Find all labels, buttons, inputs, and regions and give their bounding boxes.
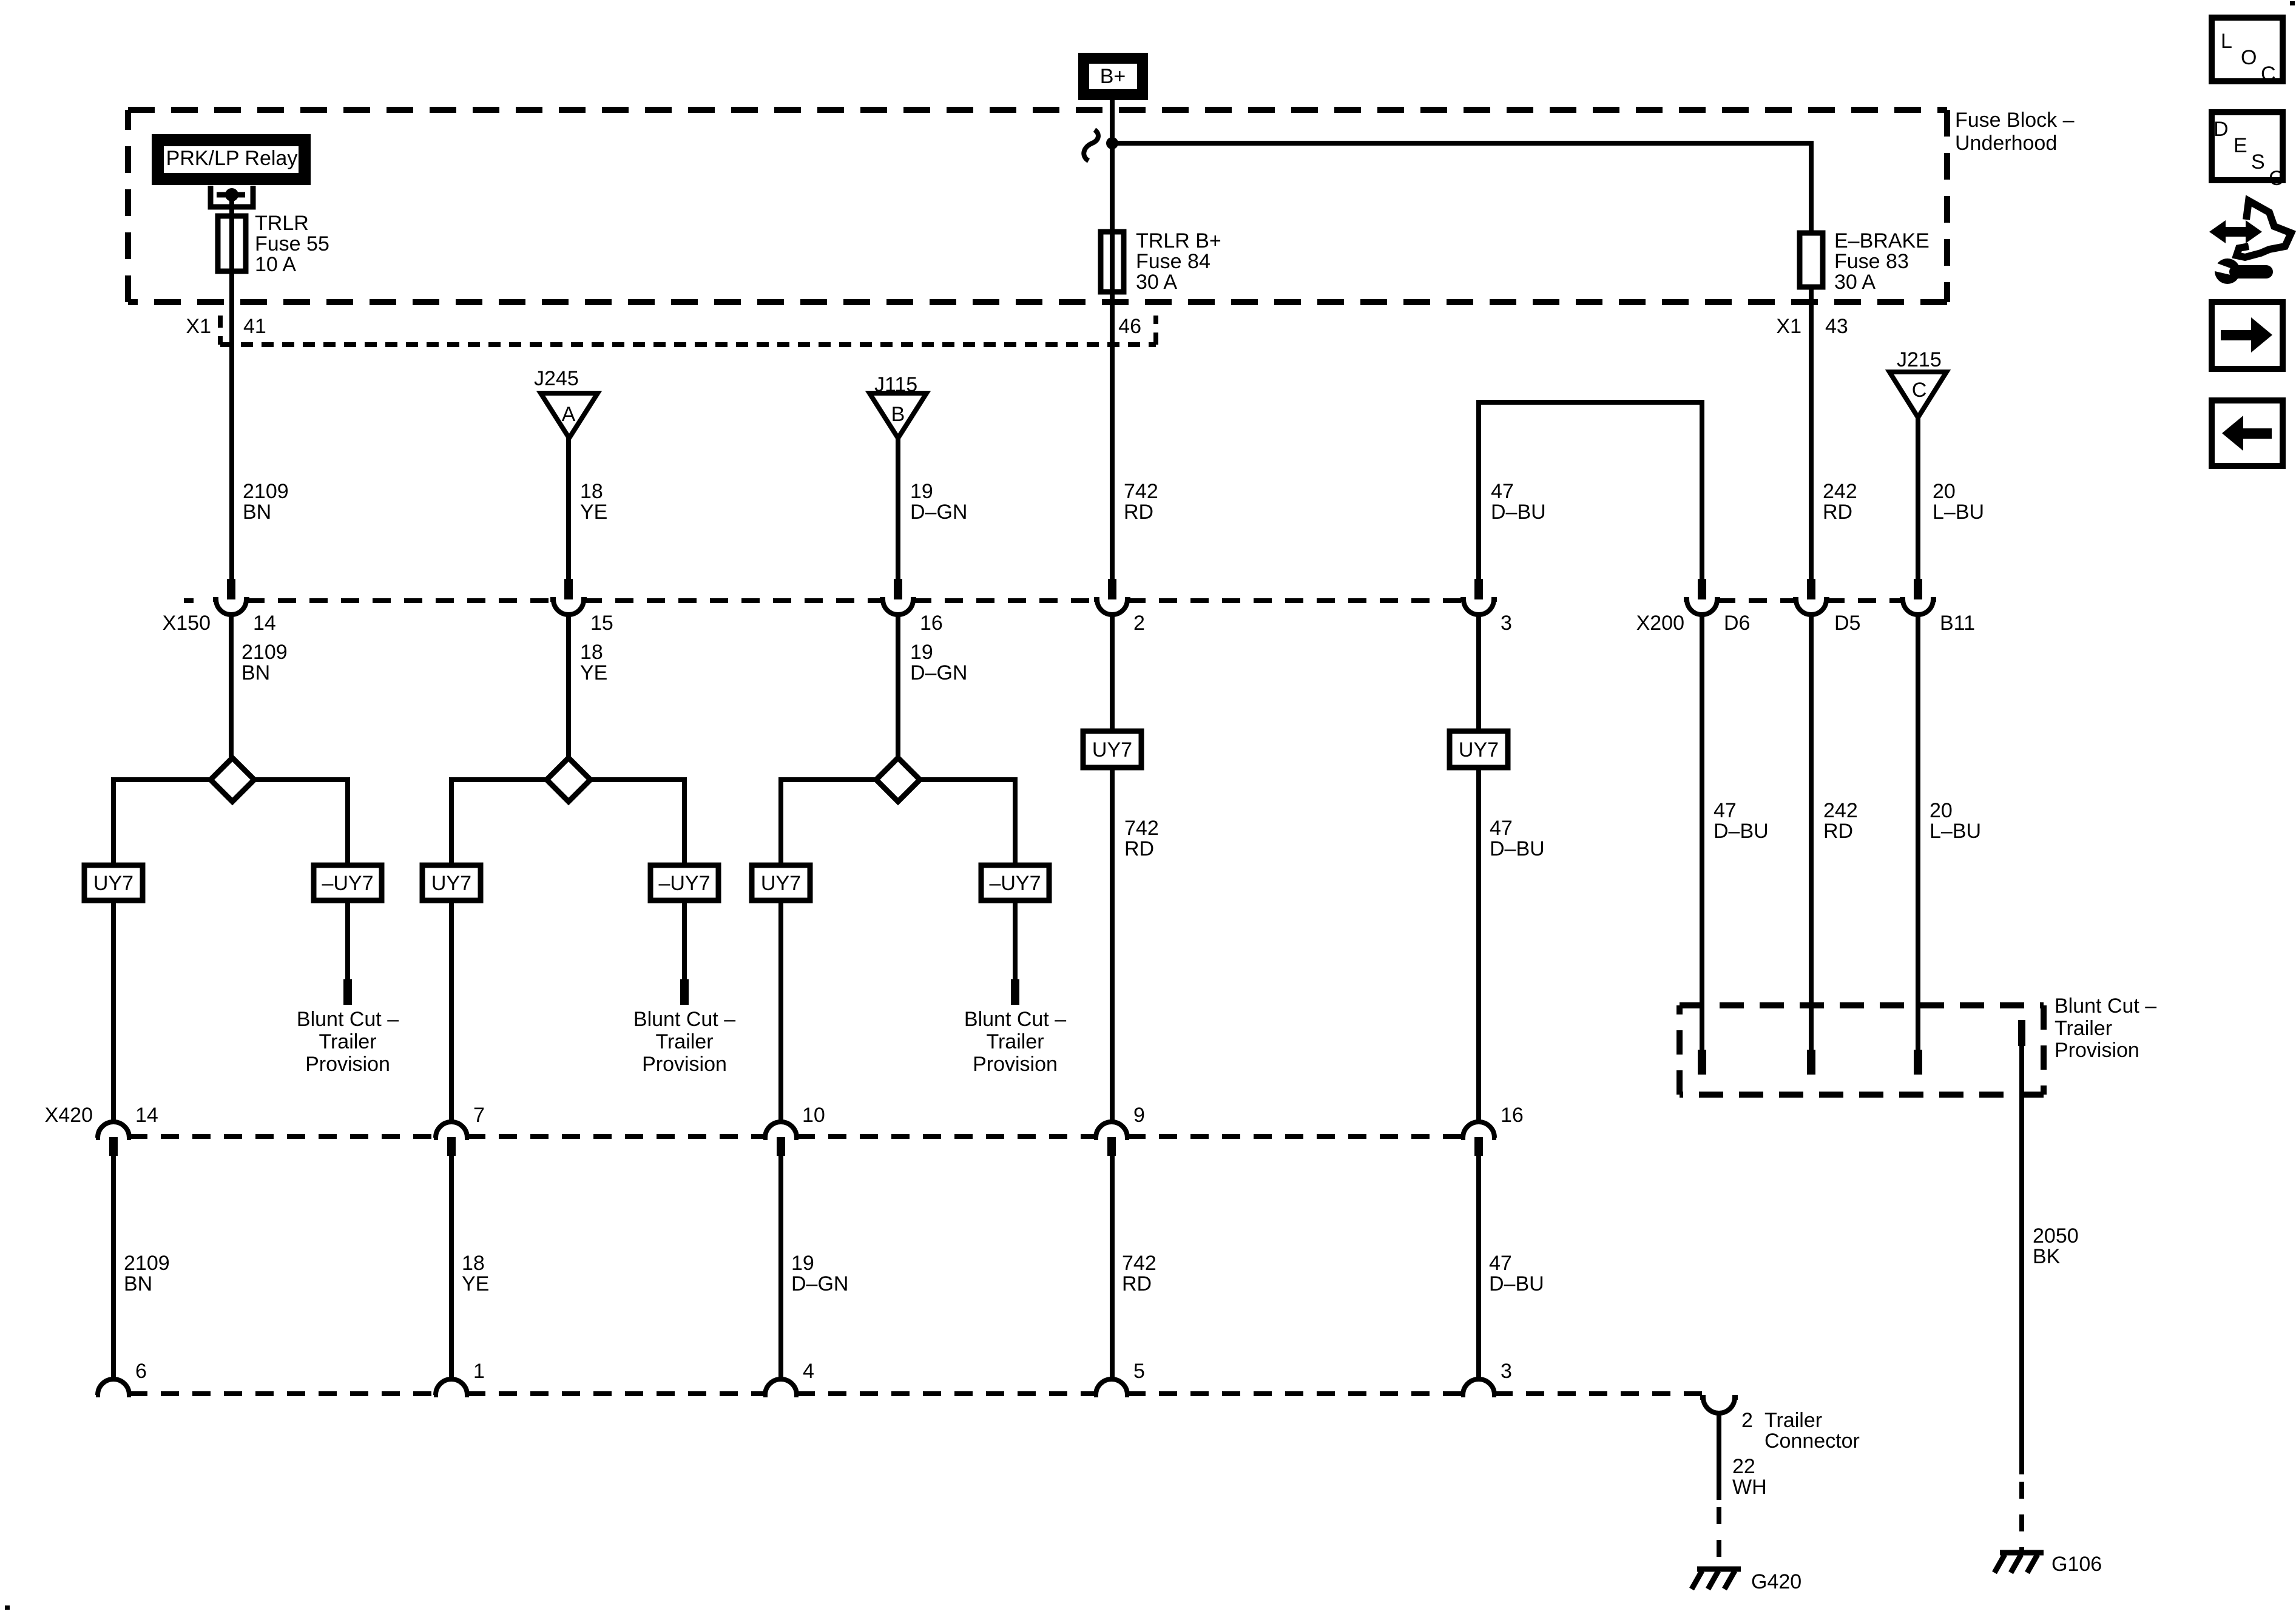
svg-text:X150: X150 — [163, 612, 211, 635]
svg-text:19: 19 — [791, 1252, 814, 1275]
svg-text:D6: D6 — [1724, 612, 1750, 635]
trailer connector row labels — [135, 1360, 1512, 1383]
wire: X150 pin 14 down to splice diamond — [229, 615, 234, 760]
PRK/LP Relay box — [158, 140, 305, 179]
svg-text:46: 46 — [1118, 315, 1141, 338]
wire: UY7 BN down to X420 pin 14 — [111, 900, 116, 1123]
blunt cut pin BK in box — [2018, 1020, 2025, 1046]
wire: X420 pin 7 down to trailer connector pin 1 — [449, 1155, 454, 1380]
svg-text:Connector: Connector — [1764, 1430, 1860, 1453]
blunt cut pin YE — [680, 979, 689, 1005]
wire 20 L-BU label below X200 — [1930, 799, 1981, 843]
svg-text:L: L — [2221, 30, 2232, 53]
wire 18 YE label below X150 — [580, 641, 607, 684]
icon back arrow box — [2212, 400, 2283, 466]
connector X420 pin 9 terminal — [1094, 1122, 1129, 1156]
svg-text:UY7: UY7 — [1459, 738, 1499, 761]
svg-text:G106: G106 — [2051, 1553, 2102, 1576]
svg-text:X1: X1 — [186, 315, 211, 338]
svg-text:Blunt Cut –: Blunt Cut – — [2055, 994, 2156, 1018]
svg-text:18: 18 — [462, 1252, 485, 1275]
svg-text:–UY7: –UY7 — [658, 872, 710, 895]
wire: UY7 YE down to X420 pin 7 — [449, 900, 454, 1123]
option box -UY7 (YE circuit) — [650, 865, 718, 900]
splice pack J115 — [869, 373, 927, 438]
wire: -UY7 D-GN down to blunt cut — [1013, 900, 1018, 979]
svg-text:Provision: Provision — [2055, 1039, 2139, 1062]
svg-text:9: 9 — [1133, 1104, 1145, 1127]
wire 742 RD label below X420 — [1122, 1252, 1156, 1295]
svg-text:20: 20 — [1930, 799, 1953, 822]
svg-text:TRLR: TRLR — [255, 212, 309, 235]
svg-text:3: 3 — [1501, 612, 1512, 635]
svg-text:YE: YE — [580, 661, 607, 684]
blunt cut pin D-BU in box — [1698, 1050, 1706, 1075]
B+ power box — [1084, 58, 1143, 95]
option box -UY7 (BN circuit) — [314, 865, 382, 900]
option box UY7 (D-BU circuit) — [1450, 731, 1508, 768]
svg-text:242: 242 — [1823, 480, 1857, 503]
connector X150 pin 15 terminal — [550, 579, 587, 615]
ground G106 — [1994, 1553, 2102, 1576]
wire 18 YE label above X150 — [580, 480, 607, 524]
svg-text:Underhood: Underhood — [1955, 132, 2057, 155]
wire 2109 BN label below X150 — [241, 641, 288, 684]
svg-text:D–BU: D–BU — [1714, 820, 1769, 843]
svg-text:–UY7: –UY7 — [989, 872, 1041, 895]
connector X420 dashed row — [129, 1134, 1463, 1139]
svg-text:19: 19 — [910, 480, 933, 503]
svg-text:RD: RD — [1823, 820, 1853, 843]
svg-text:16: 16 — [920, 612, 943, 635]
junction node B+ tap — [1106, 137, 1118, 149]
svg-text:30 A: 30 A — [1136, 271, 1177, 294]
splice diamond D-GN — [876, 758, 920, 802]
svg-text:WH: WH — [1732, 1476, 1767, 1499]
svg-text:E: E — [2234, 134, 2247, 157]
svg-text:PRK/LP Relay: PRK/LP Relay — [166, 147, 298, 170]
trailer connector pin 2 label — [1741, 1409, 1860, 1453]
svg-text:B+: B+ — [1100, 65, 1126, 88]
wire 742 RD label at UY7 — [1124, 817, 1159, 860]
svg-text:D–BU: D–BU — [1490, 837, 1545, 860]
wire: X150 pin 15 down to splice diamond — [566, 615, 571, 760]
connector X420 pin 16 terminal — [1461, 1122, 1496, 1156]
wire: branch from B+ junction to E-BRAKE fuse 83 — [1112, 143, 1811, 233]
svg-text:Fuse Block –: Fuse Block – — [1955, 109, 2075, 132]
relay terminal junction dot — [225, 188, 238, 201]
trailer connector pin 5 terminal — [1094, 1379, 1129, 1395]
svg-text:18: 18 — [580, 641, 603, 664]
icon LOC box — [2212, 18, 2283, 86]
svg-text:D–GN: D–GN — [910, 661, 967, 684]
trailer connector pin 6 terminal — [96, 1379, 131, 1395]
wire 242 RD label above X200 — [1823, 480, 1857, 524]
connector X150 pin 2 terminal — [1094, 579, 1130, 615]
ground G420 — [1692, 1569, 1801, 1593]
fuse block label — [1955, 109, 2075, 155]
icon adjust wrench — [2209, 201, 2291, 284]
option box UY7 (BN circuit) — [84, 865, 143, 900]
svg-text:G420: G420 — [1751, 1570, 1801, 1593]
svg-text:2: 2 — [1133, 612, 1145, 635]
blunt cut label D-GN — [964, 1008, 1066, 1076]
wire 19 D-GN label above X150 — [910, 480, 967, 524]
wire: YE branch line to UY7 and -UY7 — [451, 780, 684, 865]
svg-text:B: B — [891, 403, 905, 426]
svg-text:B11: B11 — [1940, 612, 1975, 635]
splice pack J215 — [1889, 348, 1947, 417]
svg-text:22: 22 — [1732, 1455, 1755, 1478]
connector X200 pin B11 terminal — [1900, 579, 1936, 615]
svg-text:Fuse 83: Fuse 83 — [1834, 250, 1909, 273]
splice diamond BN — [211, 758, 254, 802]
blunt cut trailer provision dashed box — [1680, 1005, 2044, 1095]
connector X200 row labels — [1636, 612, 1975, 635]
blunt cut label BN — [297, 1008, 399, 1076]
svg-text:UY7: UY7 — [761, 872, 801, 895]
wire: relay terminal to fuse 55 and down to X150 pin 14 — [229, 195, 234, 580]
svg-text:2050: 2050 — [2033, 1224, 2079, 1247]
svg-text:19: 19 — [910, 641, 933, 664]
wire: X150 pin 16 down to splice diamond — [896, 615, 900, 760]
wire: B+ down through fuse 84 to X150 pin 2 — [1110, 97, 1115, 580]
wire: -UY7 YE down to blunt cut — [682, 900, 687, 979]
wire 47 D-BU label below X420 — [1489, 1252, 1544, 1295]
splice pack J245 — [534, 367, 598, 438]
svg-text:1: 1 — [473, 1360, 485, 1383]
blunt cut pin L-BU in box — [1914, 1050, 1922, 1075]
connector X200 pin D5 terminal — [1793, 579, 1829, 615]
connector X150 row labels — [163, 612, 1512, 635]
fuse F84 TRLR B+ Fuse 84 30A — [1101, 229, 1221, 294]
wire: X420 pin 10 down to trailer connector pin 4 — [778, 1155, 783, 1380]
connector X200 pin D6 terminal — [1684, 579, 1720, 615]
svg-text:X420: X420 — [45, 1104, 93, 1127]
connector X1 dotted outline — [220, 316, 1156, 345]
svg-text:Blunt Cut –: Blunt Cut – — [964, 1008, 1066, 1031]
wire: X420 pin 14 down to trailer connector pin 6 — [111, 1155, 116, 1380]
wire 19 D-GN label below X420 — [791, 1252, 848, 1295]
wire: 47 D-BU branch from X150 pin 3 up and over to X200 pin D6 — [1479, 402, 1702, 580]
svg-text:2109: 2109 — [124, 1252, 170, 1275]
svg-text:Trailer: Trailer — [986, 1030, 1044, 1053]
wire: BN branch line to UY7 and -UY7 — [113, 780, 348, 865]
blunt cut label YE — [633, 1008, 735, 1076]
connector X150 pin 16 terminal — [880, 579, 916, 615]
svg-text:D5: D5 — [1834, 612, 1860, 635]
svg-text:C: C — [2269, 167, 2284, 190]
icon forward arrow box — [2212, 302, 2283, 369]
svg-text:–UY7: –UY7 — [322, 872, 373, 895]
page mark bottom left — [5, 1605, 10, 1610]
wire 22 WH label — [1732, 1455, 1767, 1499]
svg-text:X200: X200 — [1636, 612, 1684, 635]
svg-text:S: S — [2251, 150, 2265, 174]
wire: dashed stub to G420 — [1717, 1507, 1721, 1567]
connector X150 pin 3 terminal — [1460, 579, 1497, 615]
svg-text:YE: YE — [580, 501, 607, 524]
wire: X200 pin D5 down to blunt cut — [1809, 615, 1814, 1050]
svg-text:YE: YE — [462, 1272, 489, 1295]
svg-text:2109: 2109 — [243, 480, 289, 503]
connector X420 pin 10 terminal — [763, 1122, 799, 1156]
svg-text:TRLR B+: TRLR B+ — [1136, 229, 1221, 252]
svg-text:Trailer: Trailer — [655, 1030, 713, 1053]
blunt cut box label — [2055, 994, 2156, 1062]
svg-text:2: 2 — [1741, 1409, 1753, 1432]
connector X150 dashed row — [184, 598, 1464, 603]
svg-text:14: 14 — [253, 612, 276, 635]
svg-text:D–BU: D–BU — [1491, 501, 1546, 524]
svg-text:41: 41 — [243, 315, 266, 338]
svg-text:UY7: UY7 — [431, 872, 471, 895]
wire: -UY7 BN down to blunt cut — [345, 900, 350, 979]
wire 2109 BN label below X420 — [124, 1252, 170, 1295]
svg-text:C: C — [2261, 62, 2276, 86]
option box -UY7 (D-GN circuit) — [981, 865, 1049, 900]
wire 2050 BK label — [2033, 1224, 2079, 1268]
wire: X150 pin 3 down through UY7 to X420 pin 16 — [1476, 615, 1481, 1122]
svg-text:47: 47 — [1490, 817, 1513, 840]
svg-text:UY7: UY7 — [1092, 738, 1132, 761]
svg-text:742: 742 — [1124, 817, 1159, 840]
wire: J115 to X150 pin 16 — [896, 438, 900, 580]
svg-text:Blunt Cut –: Blunt Cut – — [633, 1008, 735, 1031]
trailer connector dashed row — [129, 1391, 1703, 1396]
svg-text:J245: J245 — [534, 367, 579, 390]
svg-text:47: 47 — [1489, 1252, 1512, 1275]
svg-text:10: 10 — [802, 1104, 825, 1127]
svg-text:D–GN: D–GN — [791, 1272, 848, 1295]
svg-text:X1: X1 — [1776, 315, 1801, 338]
svg-text:RD: RD — [1122, 1272, 1152, 1295]
svg-text:UY7: UY7 — [93, 872, 133, 895]
fuse F55 TRLR Fuse 55 10A — [218, 212, 329, 276]
page mark top right — [2290, 1, 2295, 5]
option box UY7 (D-GN circuit) — [752, 865, 810, 900]
svg-text:14: 14 — [135, 1104, 158, 1127]
svg-text:15: 15 — [590, 612, 613, 635]
svg-text:D–GN: D–GN — [910, 501, 967, 524]
wire: X200 pin B11 down to blunt cut — [1916, 615, 1920, 1050]
connector X1 labels pin 43 — [1776, 315, 1848, 338]
option box UY7 (YE circuit) — [422, 865, 481, 900]
trailer connector pin 2 terminal — [1700, 1397, 1738, 1413]
relay terminal bracket — [211, 186, 253, 207]
option box UY7 (RD circuit) — [1083, 731, 1141, 768]
svg-text:BN: BN — [241, 661, 270, 684]
svg-text:D: D — [2213, 118, 2229, 141]
svg-text:BK: BK — [2033, 1245, 2061, 1268]
svg-text:BN: BN — [124, 1272, 152, 1295]
wire: X200 pin D6 down to blunt cut — [1700, 615, 1704, 1050]
wire 47 D-BU label at UY7 — [1490, 817, 1545, 860]
fuse F83 E-BRAKE Fuse 83 30A — [1800, 229, 1930, 294]
svg-text:16: 16 — [1501, 1104, 1524, 1127]
trailer connector pin 4 terminal — [763, 1379, 799, 1395]
svg-text:47: 47 — [1491, 480, 1514, 503]
wire: fuse 83 down to X200 pin D5 — [1809, 287, 1814, 580]
blunt cut pin D-GN — [1011, 979, 1019, 1005]
wire: X420 pin 16 down to trailer connector pin 3 — [1476, 1155, 1481, 1380]
svg-text:10 A: 10 A — [255, 253, 296, 276]
svg-text:Provision: Provision — [973, 1053, 1058, 1076]
svg-text:C: C — [1912, 379, 1927, 402]
crimp hook symbol at B+ junction — [1084, 130, 1098, 161]
wire 19 D-GN label below X150 — [910, 641, 967, 684]
svg-text:RD: RD — [1124, 501, 1153, 524]
svg-text:47: 47 — [1714, 799, 1737, 822]
svg-text:J215: J215 — [1897, 348, 1942, 371]
connector X420 pin 7 terminal — [434, 1122, 469, 1156]
splice diamond YE — [547, 758, 590, 802]
connector X1 labels pin 41 — [186, 315, 266, 338]
svg-text:Fuse 84: Fuse 84 — [1136, 250, 1210, 273]
svg-text:43: 43 — [1825, 315, 1848, 338]
wire: J245 to X150 pin 15 — [566, 438, 571, 580]
wire 242 RD label below X200 — [1823, 799, 1858, 843]
fuse block underhood dashed outline — [128, 110, 1947, 302]
svg-text:5: 5 — [1133, 1360, 1145, 1383]
svg-text:20: 20 — [1933, 480, 1956, 503]
connector X420 pin 14 terminal — [96, 1122, 131, 1156]
blunt cut pin BN — [343, 979, 352, 1005]
svg-text:Blunt Cut –: Blunt Cut – — [297, 1008, 399, 1031]
icon DESC box — [2212, 112, 2284, 190]
svg-text:4: 4 — [803, 1360, 814, 1383]
svg-text:Provision: Provision — [642, 1053, 727, 1076]
trailer connector pin 3 terminal — [1461, 1379, 1496, 1395]
wire 47 D-BU label below X200 — [1714, 799, 1769, 843]
svg-text:2109: 2109 — [241, 641, 288, 664]
wire: dashed stub to G106 — [2019, 1482, 2024, 1551]
svg-text:30 A: 30 A — [1834, 271, 1876, 294]
connector X420 row labels — [45, 1104, 1524, 1127]
svg-text:742: 742 — [1124, 480, 1158, 503]
wire: UY7 D-GN down to X420 pin 10 — [778, 900, 783, 1123]
svg-text:Trailer: Trailer — [1764, 1409, 1822, 1432]
wire 22 WH from trailer connector to G420 — [1717, 1413, 1721, 1500]
wire 47 D-BU label above X150 — [1491, 480, 1546, 524]
svg-text:Provision: Provision — [305, 1053, 390, 1076]
wire 2050 BK from blunt cut to G106 — [2019, 1046, 2024, 1474]
svg-text:Trailer: Trailer — [319, 1030, 376, 1053]
connector X150 pin 14 terminal — [213, 579, 249, 615]
blunt cut pin RD in box — [1807, 1050, 1815, 1075]
svg-text:3: 3 — [1501, 1360, 1512, 1383]
svg-text:Fuse 55: Fuse 55 — [255, 232, 329, 255]
wire 18 YE label below X420 — [462, 1252, 489, 1295]
wire: D-GN branch line to UY7 and -UY7 — [781, 780, 1015, 865]
svg-text:RD: RD — [1823, 501, 1852, 524]
svg-text:RD: RD — [1124, 837, 1154, 860]
svg-text:7: 7 — [473, 1104, 485, 1127]
wire 742 RD label above X150 — [1124, 480, 1158, 524]
connector X200 dashed row — [1717, 598, 1903, 603]
wire 2109 BN label above X150 — [243, 480, 289, 524]
svg-text:L–BU: L–BU — [1933, 501, 1984, 524]
svg-text:A: A — [562, 403, 576, 426]
wire: J215 to X200 pin B11 — [1916, 417, 1920, 580]
svg-text:Trailer: Trailer — [2055, 1017, 2112, 1040]
svg-text:O: O — [2241, 46, 2257, 69]
svg-text:BN: BN — [243, 501, 271, 524]
svg-text:6: 6 — [135, 1360, 147, 1383]
wire 20 L-BU label above X200 — [1933, 480, 1984, 524]
svg-text:242: 242 — [1823, 799, 1858, 822]
svg-text:18: 18 — [580, 480, 603, 503]
svg-text:742: 742 — [1122, 1252, 1156, 1275]
svg-text:L–BU: L–BU — [1930, 820, 1981, 843]
svg-text:D–BU: D–BU — [1489, 1272, 1544, 1295]
wire: X150 pin 2 down through UY7 to X420 pin 9 — [1110, 615, 1115, 1122]
svg-text:E–BRAKE: E–BRAKE — [1834, 229, 1930, 252]
trailer connector pin 1 terminal — [434, 1379, 469, 1395]
wire: X420 pin 9 down to trailer connector pin 5 — [1110, 1155, 1115, 1380]
